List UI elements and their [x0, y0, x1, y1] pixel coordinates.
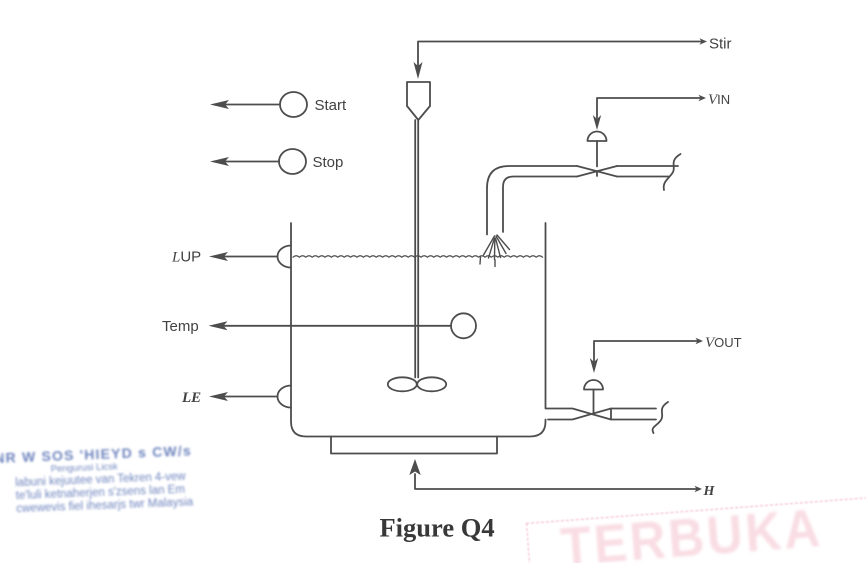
svg-text:VIN: VIN [708, 92, 730, 108]
svg-text:VOUT: VOUT [705, 335, 742, 351]
svg-text:LE: LE [181, 390, 201, 406]
svg-text:Stop: Stop [313, 154, 344, 171]
svg-text:Start: Start [315, 97, 348, 114]
svg-text:Figure Q4: Figure Q4 [380, 513, 495, 543]
svg-text:Temp: Temp [162, 318, 199, 335]
svg-text:H: H [703, 484, 716, 499]
svg-text:Stir: Stir [709, 36, 732, 53]
svg-text:LUP: LUP [171, 249, 201, 266]
